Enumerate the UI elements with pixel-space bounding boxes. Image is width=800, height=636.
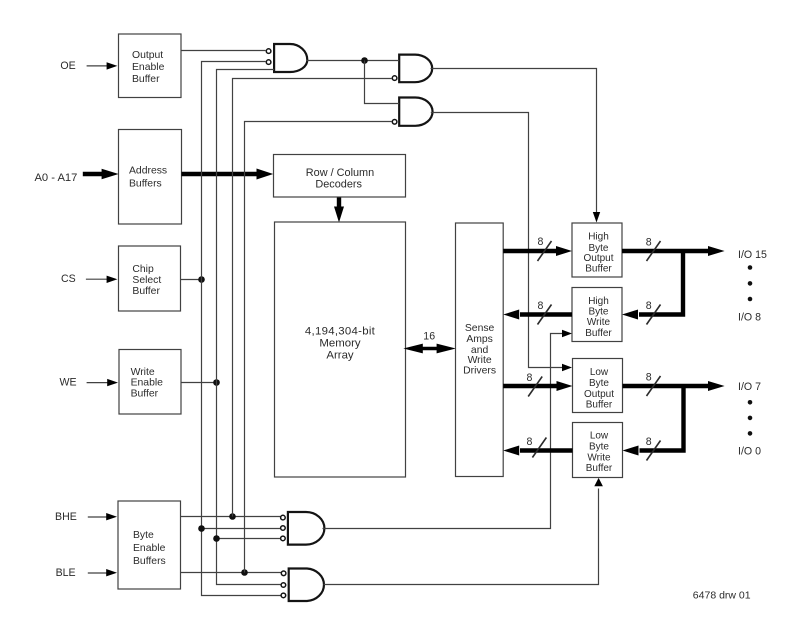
svg-text:Address: Address: [129, 166, 167, 177]
thick bus sense amps to high byte output buffer: [503, 249, 557, 253]
svg-text:Array: Array: [326, 350, 354, 362]
thick bidirectional bus memory to sense amps: [419, 347, 441, 350]
svg-text:Select: Select: [132, 275, 161, 286]
thick bus branch down to low byte write buffer: [640, 386, 684, 451]
bubble G5 input 2: [281, 583, 286, 588]
arrowhead G5 enable up: [594, 478, 603, 486]
arrowhead G4 enable right: [562, 330, 572, 337]
wire OE input: [87, 65, 109, 67]
svg-text:A0 - A17: A0 - A17: [34, 172, 77, 184]
block U10 High Byte Write Buffer: [572, 288, 622, 342]
svg-text:Buffer: Buffer: [132, 286, 160, 297]
svg-text:I/O 15: I/O 15: [738, 249, 767, 261]
bubble G4 input 3: [281, 536, 286, 541]
svg-text:Low: Low: [590, 367, 609, 378]
and-gate G1 (OE/CS/WE enable): [266, 44, 307, 72]
block U12 Low Byte Write Buffer: [573, 423, 623, 478]
slash bus width: [538, 241, 552, 261]
arrowhead BLE input: [106, 569, 117, 576]
block U1 Output Enable Buffer: [119, 34, 182, 98]
svg-text:Output: Output: [584, 389, 614, 400]
slash bus width: [647, 441, 661, 461]
node BLE junction: [241, 569, 248, 576]
svg-text:Buffer: Buffer: [586, 400, 613, 411]
bubble G5 input 3: [281, 593, 286, 598]
thick bus branch down to high byte write buffer: [639, 251, 683, 315]
node G1 output junction: [361, 57, 368, 64]
svg-text:Buffers: Buffers: [133, 556, 166, 567]
bubble G3 input 2: [392, 120, 397, 125]
slash bus width: [647, 241, 661, 261]
arrowhead G2 enable down: [593, 212, 600, 223]
thick bus low byte write buffer to sense amps: [520, 448, 573, 452]
thick bus A0-A17 input: [83, 172, 103, 176]
svg-text:8: 8: [538, 300, 544, 312]
svg-text:Low: Low: [590, 431, 609, 442]
svg-text:Enable: Enable: [131, 378, 164, 389]
wire net BHE vertical V3: [233, 79, 392, 517]
wire net WE vertical V2: [217, 70, 281, 585]
wire CS input: [86, 278, 109, 280]
wire G1 output branch to G3: [365, 61, 400, 104]
and-gate G4 (high byte write enable): [281, 512, 325, 545]
svg-text:Buffer: Buffer: [586, 463, 613, 474]
svg-text:Drivers: Drivers: [463, 365, 496, 376]
svg-text:Byte: Byte: [589, 378, 609, 389]
wire BHE buffer output to gate G4: [181, 516, 281, 518]
svg-text:I/O 8: I/O 8: [738, 311, 761, 323]
svg-text:16: 16: [423, 331, 435, 343]
thick arrow decoders to memory: [337, 198, 341, 209]
svg-text:8: 8: [646, 236, 652, 248]
wire BHE input: [88, 516, 108, 518]
svg-text:8: 8: [646, 436, 652, 448]
svg-text:Enable: Enable: [132, 62, 165, 73]
arrowhead OE input: [107, 62, 118, 69]
thick bus high byte output buffer to I/O 15: [622, 249, 709, 253]
svg-text:I/O 7: I/O 7: [738, 381, 761, 393]
thick bus high byte write buffer to sense amps: [520, 312, 572, 316]
arrowhead CS input: [107, 276, 118, 283]
svg-text:WE: WE: [59, 377, 76, 389]
svg-text:Write: Write: [131, 367, 155, 378]
slash bus width: [538, 305, 552, 325]
thick bus sense amps to low byte output buffer: [503, 384, 557, 388]
and-gate G2 (high byte output enable): [392, 55, 432, 83]
wire CS to G4 middle input: [202, 528, 281, 530]
wire G4 output to High Byte Write Buffer enable: [323, 334, 563, 529]
svg-text:8: 8: [646, 371, 652, 383]
svg-text:OE: OE: [60, 60, 75, 72]
arrowhead A bus input: [102, 169, 119, 179]
svg-text:8: 8: [538, 236, 544, 248]
svg-text:High: High: [588, 296, 609, 307]
block U2 Address Buffers: [119, 130, 182, 225]
svg-text:Memory: Memory: [319, 338, 360, 350]
svg-text:8: 8: [526, 436, 532, 448]
node ellipsis dot: [748, 400, 753, 405]
svg-text:Enable: Enable: [133, 543, 166, 554]
slash bus width: [647, 305, 661, 325]
svg-text:4,194,304-bit: 4,194,304-bit: [305, 325, 376, 337]
arrowhead G3 enable right: [562, 364, 572, 371]
block U8 Sense Amps and Write Drivers: [456, 223, 504, 477]
svg-text:6478 drw 01: 6478 drw 01: [693, 589, 751, 601]
node ellipsis dot: [748, 416, 753, 421]
svg-text:8: 8: [646, 300, 652, 312]
svg-text:High: High: [588, 231, 609, 242]
svg-text:Buffer: Buffer: [585, 328, 612, 339]
svg-text:Output: Output: [583, 253, 613, 264]
bubble G4 input 2: [281, 526, 286, 531]
bubble G4 input 1: [281, 515, 286, 520]
wire G5 output to Low Byte Write Buffer enable: [324, 489, 599, 585]
slash bus width: [647, 376, 661, 396]
svg-text:Decoders: Decoders: [315, 178, 362, 190]
svg-text:Byte: Byte: [589, 442, 609, 453]
block U3 Chip Select Buffer: [119, 246, 181, 311]
bubble G2 input 2: [392, 76, 397, 81]
bubble G5 input 1: [281, 571, 286, 576]
wire BLE input: [88, 572, 108, 574]
node BHE junction: [229, 513, 236, 520]
svg-text:Amps: Amps: [466, 334, 493, 345]
wire net BLE vertical V4: [245, 122, 392, 573]
wire BLE buffer output to gate G5: [181, 572, 282, 574]
svg-text:Output: Output: [132, 50, 163, 61]
block U4 Write Enable Buffer: [119, 350, 181, 415]
node ellipsis dot: [748, 297, 753, 302]
svg-text:Buffer: Buffer: [585, 264, 612, 275]
svg-text:Write: Write: [587, 452, 611, 463]
wire G1 output to G2: [307, 60, 400, 62]
node WE junction: [213, 379, 220, 386]
svg-text:Chip: Chip: [132, 264, 154, 275]
bubble G1 input 1: [266, 49, 271, 54]
svg-text:I/O 0: I/O 0: [738, 446, 761, 458]
thick bus low byte output buffer to I/O 7: [623, 384, 710, 388]
svg-text:Byte: Byte: [588, 306, 608, 317]
svg-text:Buffer: Buffer: [132, 74, 160, 85]
bubble G1 input 2: [266, 60, 271, 65]
svg-text:Sense: Sense: [465, 323, 495, 334]
wire WE to G4 bottom input: [217, 538, 281, 540]
and-gate G3 (low byte output enable): [392, 98, 432, 126]
and-gate G5 (low byte write enable): [281, 569, 324, 602]
wire WE buffer output: [181, 382, 217, 384]
svg-text:Write: Write: [587, 317, 611, 328]
wire G3 output to Low Byte Output Buffer enable: [431, 113, 562, 368]
block U5 Byte Enable Buffers: [118, 501, 181, 589]
svg-text:CS: CS: [61, 273, 76, 285]
svg-text:Row / Column: Row / Column: [306, 167, 374, 179]
block U7 Memory Array: [275, 222, 406, 477]
wire WE input: [87, 382, 109, 384]
node ellipsis dot: [748, 431, 753, 436]
svg-text:Write: Write: [468, 355, 492, 366]
block U9 High Byte Output Buffer: [572, 223, 622, 277]
node ellipsis dot: [748, 281, 753, 286]
wire OE buffer output to G1: [181, 50, 266, 52]
svg-text:BLE: BLE: [56, 567, 76, 579]
svg-text:BHE: BHE: [55, 511, 77, 523]
svg-text:Buffer: Buffer: [131, 388, 159, 399]
wire net CS vertical V1: [202, 62, 281, 596]
thick bus address to decoders: [182, 172, 259, 176]
svg-text:Byte: Byte: [133, 530, 154, 541]
node ellipsis dot: [748, 265, 753, 270]
wire CS buffer output: [181, 279, 202, 281]
arrowhead address to decoders: [257, 169, 274, 180]
block U6 Row / Column Decoders: [274, 155, 406, 198]
node CS to G4 junction: [198, 525, 205, 532]
wire G2 output to High Byte Output Buffer enable: [431, 69, 597, 213]
arrowhead BHE input: [106, 513, 117, 520]
slash bus width: [528, 377, 542, 397]
arrowhead WE input: [107, 379, 118, 386]
svg-text:Buffers: Buffers: [129, 179, 162, 190]
svg-text:8: 8: [526, 372, 532, 384]
node WE to G4 junction: [213, 535, 220, 542]
slash bus width: [532, 438, 546, 458]
block U11 Low Byte Output Buffer: [573, 359, 623, 413]
node CS junction: [198, 276, 205, 283]
